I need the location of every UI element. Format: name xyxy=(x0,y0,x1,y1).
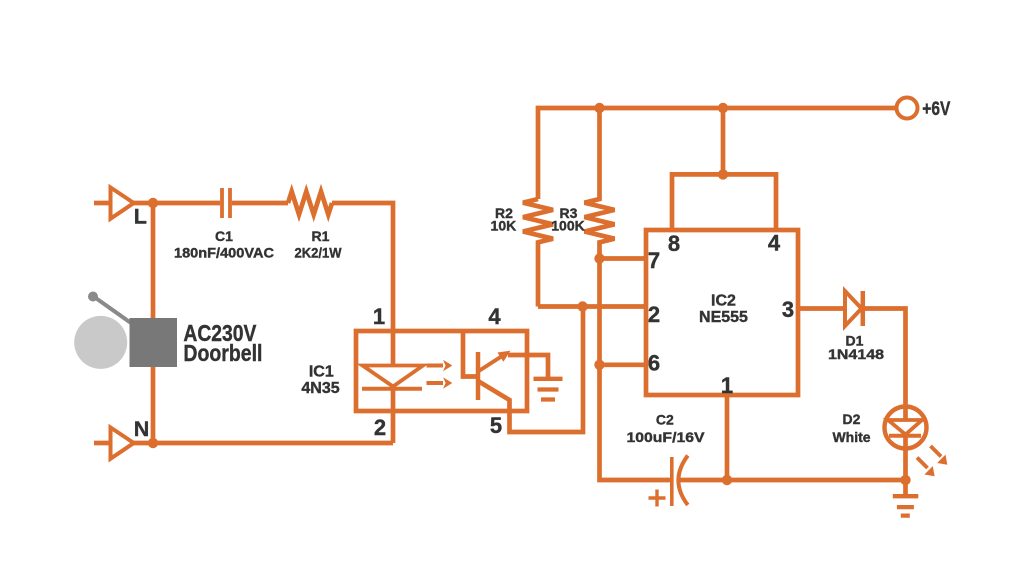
LED D2 light arrows xyxy=(917,446,941,468)
svg-text:1N4148: 1N4148 xyxy=(828,346,884,362)
svg-text:100K: 100K xyxy=(551,218,584,234)
wire: C1 to R1 xyxy=(232,201,288,206)
IC1 internal LED xyxy=(363,366,424,387)
wire: emitter pin5 to trigger node xyxy=(478,307,583,433)
wire: collector to ground xyxy=(508,355,548,377)
terminal N xyxy=(94,441,110,446)
node: R3/pin7 xyxy=(594,253,604,263)
wire: pin7 stub xyxy=(600,256,647,261)
svg-text:IC2: IC2 xyxy=(711,292,736,309)
svg-text:2: 2 xyxy=(374,415,386,440)
doorbell button square xyxy=(130,318,178,367)
LED D2 xyxy=(885,407,927,449)
node: rail-555 supply xyxy=(718,103,728,113)
ground (below D2) xyxy=(893,496,919,515)
svg-text:+6V: +6V xyxy=(922,99,950,120)
svg-text:5: 5 xyxy=(490,413,502,438)
wire: 555 pins 8-4 bridge xyxy=(672,174,776,230)
capacitor C2 (electrolytic) xyxy=(670,457,674,506)
svg-text:N: N xyxy=(134,417,150,441)
wire: pin3 to D1 xyxy=(798,306,845,311)
svg-text:10K: 10K xyxy=(491,218,517,234)
svg-text:7: 7 xyxy=(648,248,660,273)
wire: top +6V rail xyxy=(538,108,896,199)
capacitor C1 xyxy=(222,188,230,218)
svg-text:IC1: IC1 xyxy=(309,363,334,380)
svg-text:Doorbell: Doorbell xyxy=(183,340,262,366)
svg-text:L: L xyxy=(134,205,147,229)
svg-text:6: 6 xyxy=(648,351,660,376)
svg-text:1: 1 xyxy=(373,304,385,329)
wire: opto pin2 to N xyxy=(134,441,393,446)
+6V terminal xyxy=(897,98,918,119)
svg-text:180nF/400VAC: 180nF/400VAC xyxy=(174,245,274,261)
doorbell bell circle xyxy=(74,316,127,369)
node: D2/ground xyxy=(900,475,910,485)
wire: R1 to opto pin1 corner xyxy=(332,203,393,443)
svg-text:4: 4 xyxy=(488,304,501,329)
wire: R3 node down to pin6 node xyxy=(597,259,602,365)
node: bridge center xyxy=(718,169,728,179)
svg-text:NE555: NE555 xyxy=(699,309,748,326)
svg-text:4N35: 4N35 xyxy=(301,380,339,397)
node: L junction xyxy=(148,198,158,208)
svg-text:8: 8 xyxy=(668,231,680,256)
wire: D1 to D2 xyxy=(863,309,906,407)
svg-text:4: 4 xyxy=(768,231,781,256)
optocoupler IC1 box xyxy=(356,331,527,411)
wire: trigger line R2 to pin2 xyxy=(538,304,646,309)
node: rail-R3 xyxy=(594,103,604,113)
node: pin1/bottom rail xyxy=(722,475,732,485)
wire: pin6 node down to bottom rail, to C2 xyxy=(600,365,671,480)
wire: bridge to top rail xyxy=(721,108,726,174)
IC1 phototransistor xyxy=(476,352,481,400)
node: pin6 junction xyxy=(594,360,604,370)
wire: 555 pin1 down to bottom rail xyxy=(725,395,730,480)
svg-text:1: 1 xyxy=(721,373,733,398)
resistor R1 xyxy=(288,192,332,215)
resistor R3 xyxy=(585,108,615,259)
wire: pin6 stub xyxy=(600,362,647,367)
node: trigger junction xyxy=(577,301,587,311)
svg-text:C2: C2 xyxy=(656,412,674,428)
terminal L xyxy=(94,201,110,206)
resistor R2 xyxy=(523,199,553,307)
wire: L to C1 xyxy=(134,201,220,206)
doorbell clapper xyxy=(95,298,131,324)
svg-text:2: 2 xyxy=(648,302,660,327)
diode D1 xyxy=(845,291,862,326)
svg-text:C1: C1 xyxy=(215,228,233,244)
svg-text:R1: R1 xyxy=(312,228,330,244)
IC1 light coupling arrows xyxy=(427,366,444,384)
wire: bottom rail C2 to D2 ground node xyxy=(680,478,906,483)
svg-text:3: 3 xyxy=(782,297,794,322)
svg-text:White: White xyxy=(832,429,870,445)
svg-text:100uF/16V: 100uF/16V xyxy=(627,429,706,445)
wire: L-N vertical (behind doorbell) xyxy=(151,203,156,443)
svg-text:2K2/1W: 2K2/1W xyxy=(295,245,343,261)
ground (near IC1) xyxy=(534,379,563,400)
node: N junction xyxy=(148,438,158,448)
IC1 divider + base stub xyxy=(463,331,478,377)
IC2 NE555 box xyxy=(646,230,798,395)
svg-text:D2: D2 xyxy=(843,411,861,427)
